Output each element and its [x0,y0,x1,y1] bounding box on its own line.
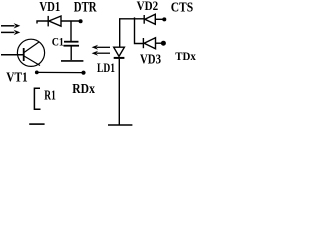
ground bar bottom left [29,123,44,125]
diode VD3 [143,38,161,49]
terminal dot RDx [81,71,85,75]
svg-text:CTS: CTS [171,1,194,16]
phototransistor VT1 [1,39,45,66]
svg-text:VD2: VD2 [137,0,159,13]
diode VD1 [37,16,80,27]
IR input arrow 1 [1,23,20,28]
wire emitter to RDx [37,71,83,73]
terminal dot CTS [162,17,166,21]
terminal dot DTR [79,19,83,23]
svg-text:VD3: VD3 [140,52,161,67]
svg-text:RDx: RDx [72,82,95,97]
svg-text:TDx: TDx [175,49,196,63]
svg-text:LD1: LD1 [97,60,115,75]
LED output arrow 2 [92,51,110,56]
junction bus to VD3 [135,17,144,43]
wire LD1 top to VD2 [119,18,144,20]
svg-text:VD1: VD1 [39,0,60,15]
svg-text:C1: C1 [52,35,64,49]
ground bar under C1 [61,60,83,62]
LED output arrow 1 [92,45,110,50]
ground bar bottom right [108,124,132,126]
svg-text:R1: R1 [44,89,56,104]
terminal dot TDx [161,41,166,46]
LED LD1 [114,19,125,125]
emitter node dot [35,71,39,75]
svg-text:VT1: VT1 [6,70,27,85]
resistor R1 (left half of box) [34,88,40,109]
capacitor C1 [64,21,80,60]
diode VD2 [144,14,163,24]
IR input arrow 2 [1,30,20,35]
svg-text:DTR: DTR [74,0,97,16]
